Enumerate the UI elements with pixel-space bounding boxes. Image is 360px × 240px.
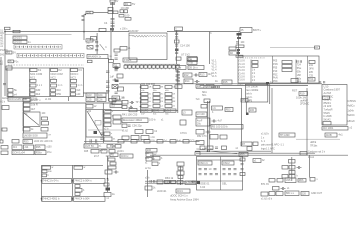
wire main top bus [5,31,129,33]
svg-text:RS 100 100 b: RS 100 100 b [212,125,228,129]
resistor R14B [196,85,204,89]
resistor R3 on bus [13,30,20,33]
svg-text:4x1: 4x1 [339,132,344,136]
capacitor C77 [247,147,252,151]
svg-text:R12: R12 [184,73,189,77]
svg-text:RST: RST [292,89,298,93]
regulator U7B [187,61,197,65]
svg-text:74HC1 b 04 x: 74HC1 b 04 x [43,179,60,183]
svg-text:w: w [52,166,54,169]
IC U9 outline [245,85,267,103]
resistor R62 [153,157,160,161]
resistor R11 [176,57,181,60]
connector J10 [322,127,348,131]
diode D1 [124,3,131,6]
wire vertical pair [206,101,208,151]
junction [176,31,178,33]
grid of caps 3 cols [141,86,148,89]
svg-text:5V: 5V [116,1,119,3]
contact tick 2 [95,139,97,143]
svg-text:U16: U16 [286,178,291,182]
svg-text:LM358 SO8: LM358 SO8 [24,133,38,137]
capacitor C85 [42,170,47,173]
test point TP7 [212,120,214,122]
svg-text:L2 b: L2 b [176,65,182,69]
resistor R1 [86,11,93,14]
capacitor CB [51,79,57,82]
capacitor C30 [115,91,118,93]
resistor R41 [113,120,121,124]
svg-text:74HC2 b 004 x: 74HC2 b 004 x [74,179,92,183]
test point TP6 [129,106,131,108]
regulator U3 [87,55,108,59]
svg-text:100: 100 [87,10,92,14]
wire [238,33,240,57]
resistor R64 [300,152,307,156]
resonator X2 [122,118,148,123]
connector J8 [8,98,31,102]
IC U10 outline tall [322,85,347,126]
capacitor C18B [88,60,93,63]
capacitor C24 [97,93,106,97]
capacitor C60 [107,145,113,149]
capacitor C16 [237,37,241,39]
svg-text:10k: 10k [207,84,212,88]
svg-text:R14: R14 [185,79,190,83]
resistor R43 [104,137,112,141]
IC U17 [84,144,98,148]
svg-text:SDA: SDA [202,91,207,94]
row of contacts [30,84,36,87]
wire vertical right [245,102,247,114]
capacitor C85B [42,174,47,177]
svg-text:SCL: SCL [202,95,207,97]
svg-text:74HC4 b 004: 74HC4 b 004 [74,197,90,201]
svg-text:2F2k0C: 2F2k0C [300,102,309,106]
resistor R67 [273,187,280,191]
resistor R1C [86,39,93,42]
wire [196,87,242,89]
svg-text:5uF0C: 5uF0C [348,114,355,117]
test point TP8 [206,131,208,133]
wire [96,33,98,54]
wire diagonal [210,151,237,154]
wire [85,103,87,143]
U15 contact row 1b [223,168,226,170]
U5 divider 2 [49,68,51,97]
resistor R18 [282,69,292,72]
capacitor C50 [2,106,9,110]
resistor R38 [122,106,127,109]
svg-text:R63 1k: R63 1k [165,176,174,180]
capacitor C95B [289,175,295,179]
svg-text:R36x: R36x [36,150,43,154]
svg-text:C56 22p: C56 22p [132,124,142,128]
capacitor C15C [237,52,241,54]
shield box outline [271,88,273,153]
capacitor C15B [237,49,240,51]
resistor R20 [323,96,330,100]
capacitor C11 [96,45,99,47]
IC internal divider 4 [307,56,309,83]
svg-text:J20: J20 [302,191,307,195]
resistor R12 [183,73,192,77]
resistor R1B [119,15,124,18]
svg-text:MAX809 1x: MAX809 1x [88,54,102,58]
svg-text:C25: C25 [87,97,92,101]
connector J3 [13,40,27,43]
U15 header label 1 [198,161,212,165]
test point TP2 [194,74,196,76]
resistor R40 [113,115,121,119]
svg-text:C24: C24 [98,93,103,97]
IC U15 outline [197,157,243,191]
resistor R42 [104,132,110,136]
capacitor dark [106,188,111,191]
wire [93,12,108,14]
svg-text:1x54x: 1x54x [348,110,355,113]
svg-text:w: w [84,166,86,169]
svg-text:R10: R10 [57,90,62,92]
resistor R61 [104,193,111,197]
resistor R49 [201,105,207,109]
capacitor C14 [175,44,178,46]
wire pair [145,180,197,182]
svg-text:V1.6: V1.6 [212,75,218,78]
connector J9 [112,101,122,105]
inductor L2 [176,66,187,70]
resistor R33 [23,140,33,144]
wire [30,102,113,104]
U15 contact row 2a [199,173,202,175]
capacitor C45 [252,65,258,68]
svg-text:R15: R15 [223,80,228,84]
connector J12 [1,146,8,150]
svg-text:R13: R13 [200,72,205,76]
capacitor C43 [177,77,180,79]
resistor R6 [315,46,320,49]
svg-text:20u: 20u [197,122,202,125]
wire left edge [4,62,6,96]
capacitor C83 [110,162,116,165]
component row y178 [269,179,275,183]
svg-text:C4: C4 [104,21,108,25]
svg-text:xR: xR [149,87,152,89]
pin rows 2 [30,89,35,92]
svg-text:8NN0: 8NN0 [110,146,117,148]
svg-text:CLK DATA 100: CLK DATA 100 [197,148,214,151]
svg-text:R35: R35 [36,145,41,149]
svg-text:OSC2: OSC2 [223,161,231,165]
resistor R26 [42,117,48,120]
resistor R9 [118,87,124,91]
bus wire 2 [200,85,308,87]
capacitor C95 [282,175,288,179]
svg-text:OUT 5V: OUT 5V [85,144,95,148]
svg-text:P0C: P0C [273,80,278,83]
svg-text:x100 1% x100 1%: x100 1% x100 1% [34,141,53,143]
svg-text:NC2: NC2 [51,75,57,79]
connector J2 [13,36,27,40]
grid rails [140,84,142,113]
capacitor C10 [95,41,98,43]
IC U14 row [42,197,72,202]
resistor R36 [109,98,116,102]
svg-text:NO2 COM: NO2 COM [51,72,63,76]
svg-text:NC3: NC3 [71,75,77,79]
svg-text:SEL: SEL [222,181,227,185]
component row y192 [261,192,268,196]
connector J10B [325,133,337,137]
wire [180,166,182,185]
capacitor C25 [86,98,95,102]
resistor R5 [236,41,239,43]
resistor R24 [23,108,30,112]
inductor L1 [110,2,115,4]
svg-text:pair panel 1 APC--1 1: pair panel 1 APC--1 1 [261,143,285,146]
capacitor C21 [106,85,109,87]
relay K1 [30,69,37,72]
svg-text:100: 100 [250,108,255,112]
svg-text:GND OUT: GND OUT [311,192,323,195]
junction [246,113,249,116]
capacitor C6B [124,10,128,13]
wire vertical main [112,2,114,31]
connector J16B [74,166,83,169]
Q2 inner mark [95,121,101,126]
svg-text:x2 b1: x2 b1 [145,168,151,170]
wire diagonal [100,44,105,50]
relay K3 [71,69,78,72]
IC internal divider 3 [295,60,297,84]
resistor R10 [112,96,120,100]
svg-text:U7 1V2: U7 1V2 [181,52,190,56]
resistor R14 [184,79,193,84]
junction [107,178,109,180]
svg-text:Resonator 4MHz: Resonator 4MHz [123,118,143,122]
capacitor C20 [106,80,109,82]
connector J15 [110,104,122,108]
resistor R4 [175,49,179,52]
svg-text:R19: R19 [300,91,305,95]
IC internal divider 1 [250,60,252,84]
capacitor C61 [115,145,121,149]
U15 divider [220,157,222,191]
resistor array RN2 dashed [17,53,84,58]
svg-text:BATT+: BATT+ [253,28,261,32]
svg-text:1 x 1: 1 x 1 [37,85,43,87]
svg-text:4u7: 4u7 [218,119,223,123]
resistor R23 [23,103,30,107]
junction [85,14,87,16]
resistor R27 [42,122,49,126]
resistor R60 [104,183,109,186]
marks col right of U15 [240,158,245,161]
svg-text:1 mol: 1 mol [308,156,314,159]
IC U8 outline [238,56,319,83]
capacitor C3B [113,11,118,14]
connector J16 [42,166,51,169]
capacitor C6 [120,10,124,13]
capacitor C82 [108,158,115,161]
svg-text:C26: C26 [98,97,103,101]
grid bottom row wide [141,109,152,112]
svg-text:10k R: 10k R [31,103,38,107]
svg-text:J10 1001: J10 1001 [323,126,334,130]
svg-text:U7: U7 [188,56,192,60]
svg-text:D7: D7 [242,142,246,146]
resistor R51 long [211,125,243,130]
capacitor C62 [101,150,107,154]
svg-text:10k: 10k [197,84,202,88]
svg-text:k7u7: k7u7 [94,156,100,158]
resistor R62C [253,159,261,163]
svg-text:tek b: tek b [246,92,252,96]
U15 contact row 1a [199,168,202,170]
resistor row RN3 [124,65,127,68]
wire dashed [8,64,84,66]
capacitor CC [71,79,77,82]
resistor R55B [195,152,200,156]
svg-text:5V: 5V [13,50,16,54]
capacitor C5 [111,21,115,23]
svg-text:SW x.x: SW x.x [286,191,295,195]
svg-text:CN202: CN202 [14,40,23,44]
svg-text:K2: K2 [59,68,63,72]
wire vertical J1 [83,23,85,41]
junction [83,31,85,33]
svg-text:4k7: 4k7 [31,107,36,111]
resistor R21 [323,122,331,125]
resistor R53 [196,141,204,145]
svg-text:100: 100 [125,14,130,18]
svg-text:x100 b: x100 b [117,151,125,153]
wire bus 2 [5,33,72,35]
svg-text:N4255: N4255 [99,150,106,152]
capacitor C2 [82,18,85,20]
connector J4 [175,27,183,31]
svg-text:R54: R54 [242,98,247,102]
fuse F1 [99,28,106,31]
resistor R14C [206,85,214,89]
capacitor C26 [97,98,106,102]
svg-text:J15: J15 [111,104,116,108]
resistor R50 [225,108,233,112]
wire [68,97,70,101]
capacitor C22 [106,90,109,92]
svg-text:V1.6 K: V1.6 K [238,79,246,82]
wire [98,147,115,149]
wire [147,170,149,197]
resistor R48 [204,99,210,103]
IC internal divider 2 [271,56,273,83]
resistor R19 [299,92,308,96]
on-line boxes [157,180,163,184]
col4 ticks [296,60,298,62]
diode D5 [188,66,204,70]
wire [83,14,85,22]
resistor R63 [177,171,184,175]
rail right ticks [177,70,179,84]
diode D2B [229,51,238,55]
capacitor C74 [210,135,218,140]
resistor R6B [120,47,127,51]
capacitor C90 [178,167,183,170]
svg-text:x1 b2 b: x1 b2 b [261,133,270,136]
wire [83,92,109,94]
junction dots [207,150,209,152]
wire top rail [42,164,104,166]
capacitor C69 [146,153,153,157]
svg-text:5k142: 5k142 [324,117,332,121]
svg-text:5V: 5V [132,2,135,6]
svg-text:NO1 COM: NO1 COM [30,72,42,76]
svg-text:1 b: 1 b [212,106,216,110]
diode D7 [241,142,252,146]
capacitor C11B [95,49,98,51]
resistor R15 [222,80,232,84]
capacitor C4 [111,18,115,20]
wire vertical [176,31,178,65]
svg-text:1uF: 1uF [110,75,115,79]
svg-text:XTAL1: XTAL1 [124,58,132,62]
svg-text:K1: K1 [38,68,42,72]
ticks on bus [319,81,321,83]
junction block [110,28,114,31]
svg-text:J13: J13 [13,145,18,149]
capacitor C44 [252,61,258,64]
connector J13 [12,145,22,150]
connector J7 [8,93,13,97]
capacitor C23 [86,93,95,97]
wire [88,129,124,131]
svg-text:uRFk: uRFk [310,140,317,144]
svg-text:mw: mw [48,171,52,173]
resistor R58 [105,170,112,174]
svg-text:5V0: 5V0 [0,54,5,56]
capacitor C89 [177,162,184,166]
svg-text:R52 C73: R52 C73 [197,135,207,138]
connector row 3 [1,151,8,155]
capacitor C88 [75,193,80,196]
svg-text:R3: R3 [7,50,11,54]
capacitor C14B [175,51,178,53]
diode D4 [117,74,123,78]
svg-text:7C4: 7C4 [309,78,314,81]
component row [200,146,205,150]
svg-text:NO3 C: NO3 C [71,72,79,76]
svg-text:R50: R50 [226,107,231,111]
svg-text:CN201: CN201 [14,36,23,40]
capacitor C42 [177,74,180,76]
capacitor C46 [309,61,315,64]
capacitor C63 [146,149,157,153]
capacitor C93B [289,166,295,170]
capacitor C1 [82,14,85,16]
resistor R7 [8,89,13,93]
svg-text:R33: R33 [24,139,29,143]
svg-text:100 b: 100 b [149,118,156,122]
capacitor C29 [115,69,118,71]
svg-text:D1: D1 [125,2,129,6]
svg-text:OSC1 b: OSC1 b [199,161,209,165]
resistor R35 [35,145,45,150]
capacitor C72B [146,130,153,134]
svg-text:CON x: CON x [121,154,129,158]
svg-text:lam 1000k: lam 1000k [246,88,259,92]
resistor R32 [12,140,19,144]
svg-text:K3: K3 [79,68,83,72]
